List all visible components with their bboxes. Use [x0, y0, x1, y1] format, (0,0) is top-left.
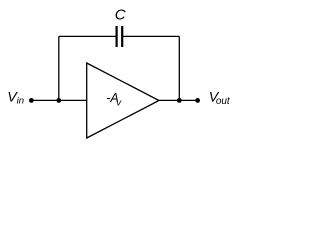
node Vout terminal dot	[195, 98, 200, 103]
svg-text:C: C	[115, 7, 126, 24]
wire: left vertical feedback drop	[58, 36, 60, 100]
wire: top feedback, left segment to capacitor	[59, 35, 117, 37]
wire: output wire	[159, 99, 198, 101]
svg-text:-Av: -Av	[106, 91, 122, 107]
junction: input feedback tap	[56, 98, 61, 103]
svg-text:Vin: Vin	[7, 90, 24, 107]
capacitor C	[117, 26, 123, 47]
svg-text:Vout: Vout	[209, 89, 231, 107]
wire: top feedback, right segment from capacitor	[122, 35, 179, 37]
op-amp U1 (inverting amplifier triangle)	[87, 63, 159, 138]
wire: input wire	[31, 99, 86, 101]
junction: output feedback tap	[177, 98, 182, 103]
wire: right vertical feedback drop	[178, 36, 180, 100]
node Vin terminal dot	[29, 98, 34, 103]
